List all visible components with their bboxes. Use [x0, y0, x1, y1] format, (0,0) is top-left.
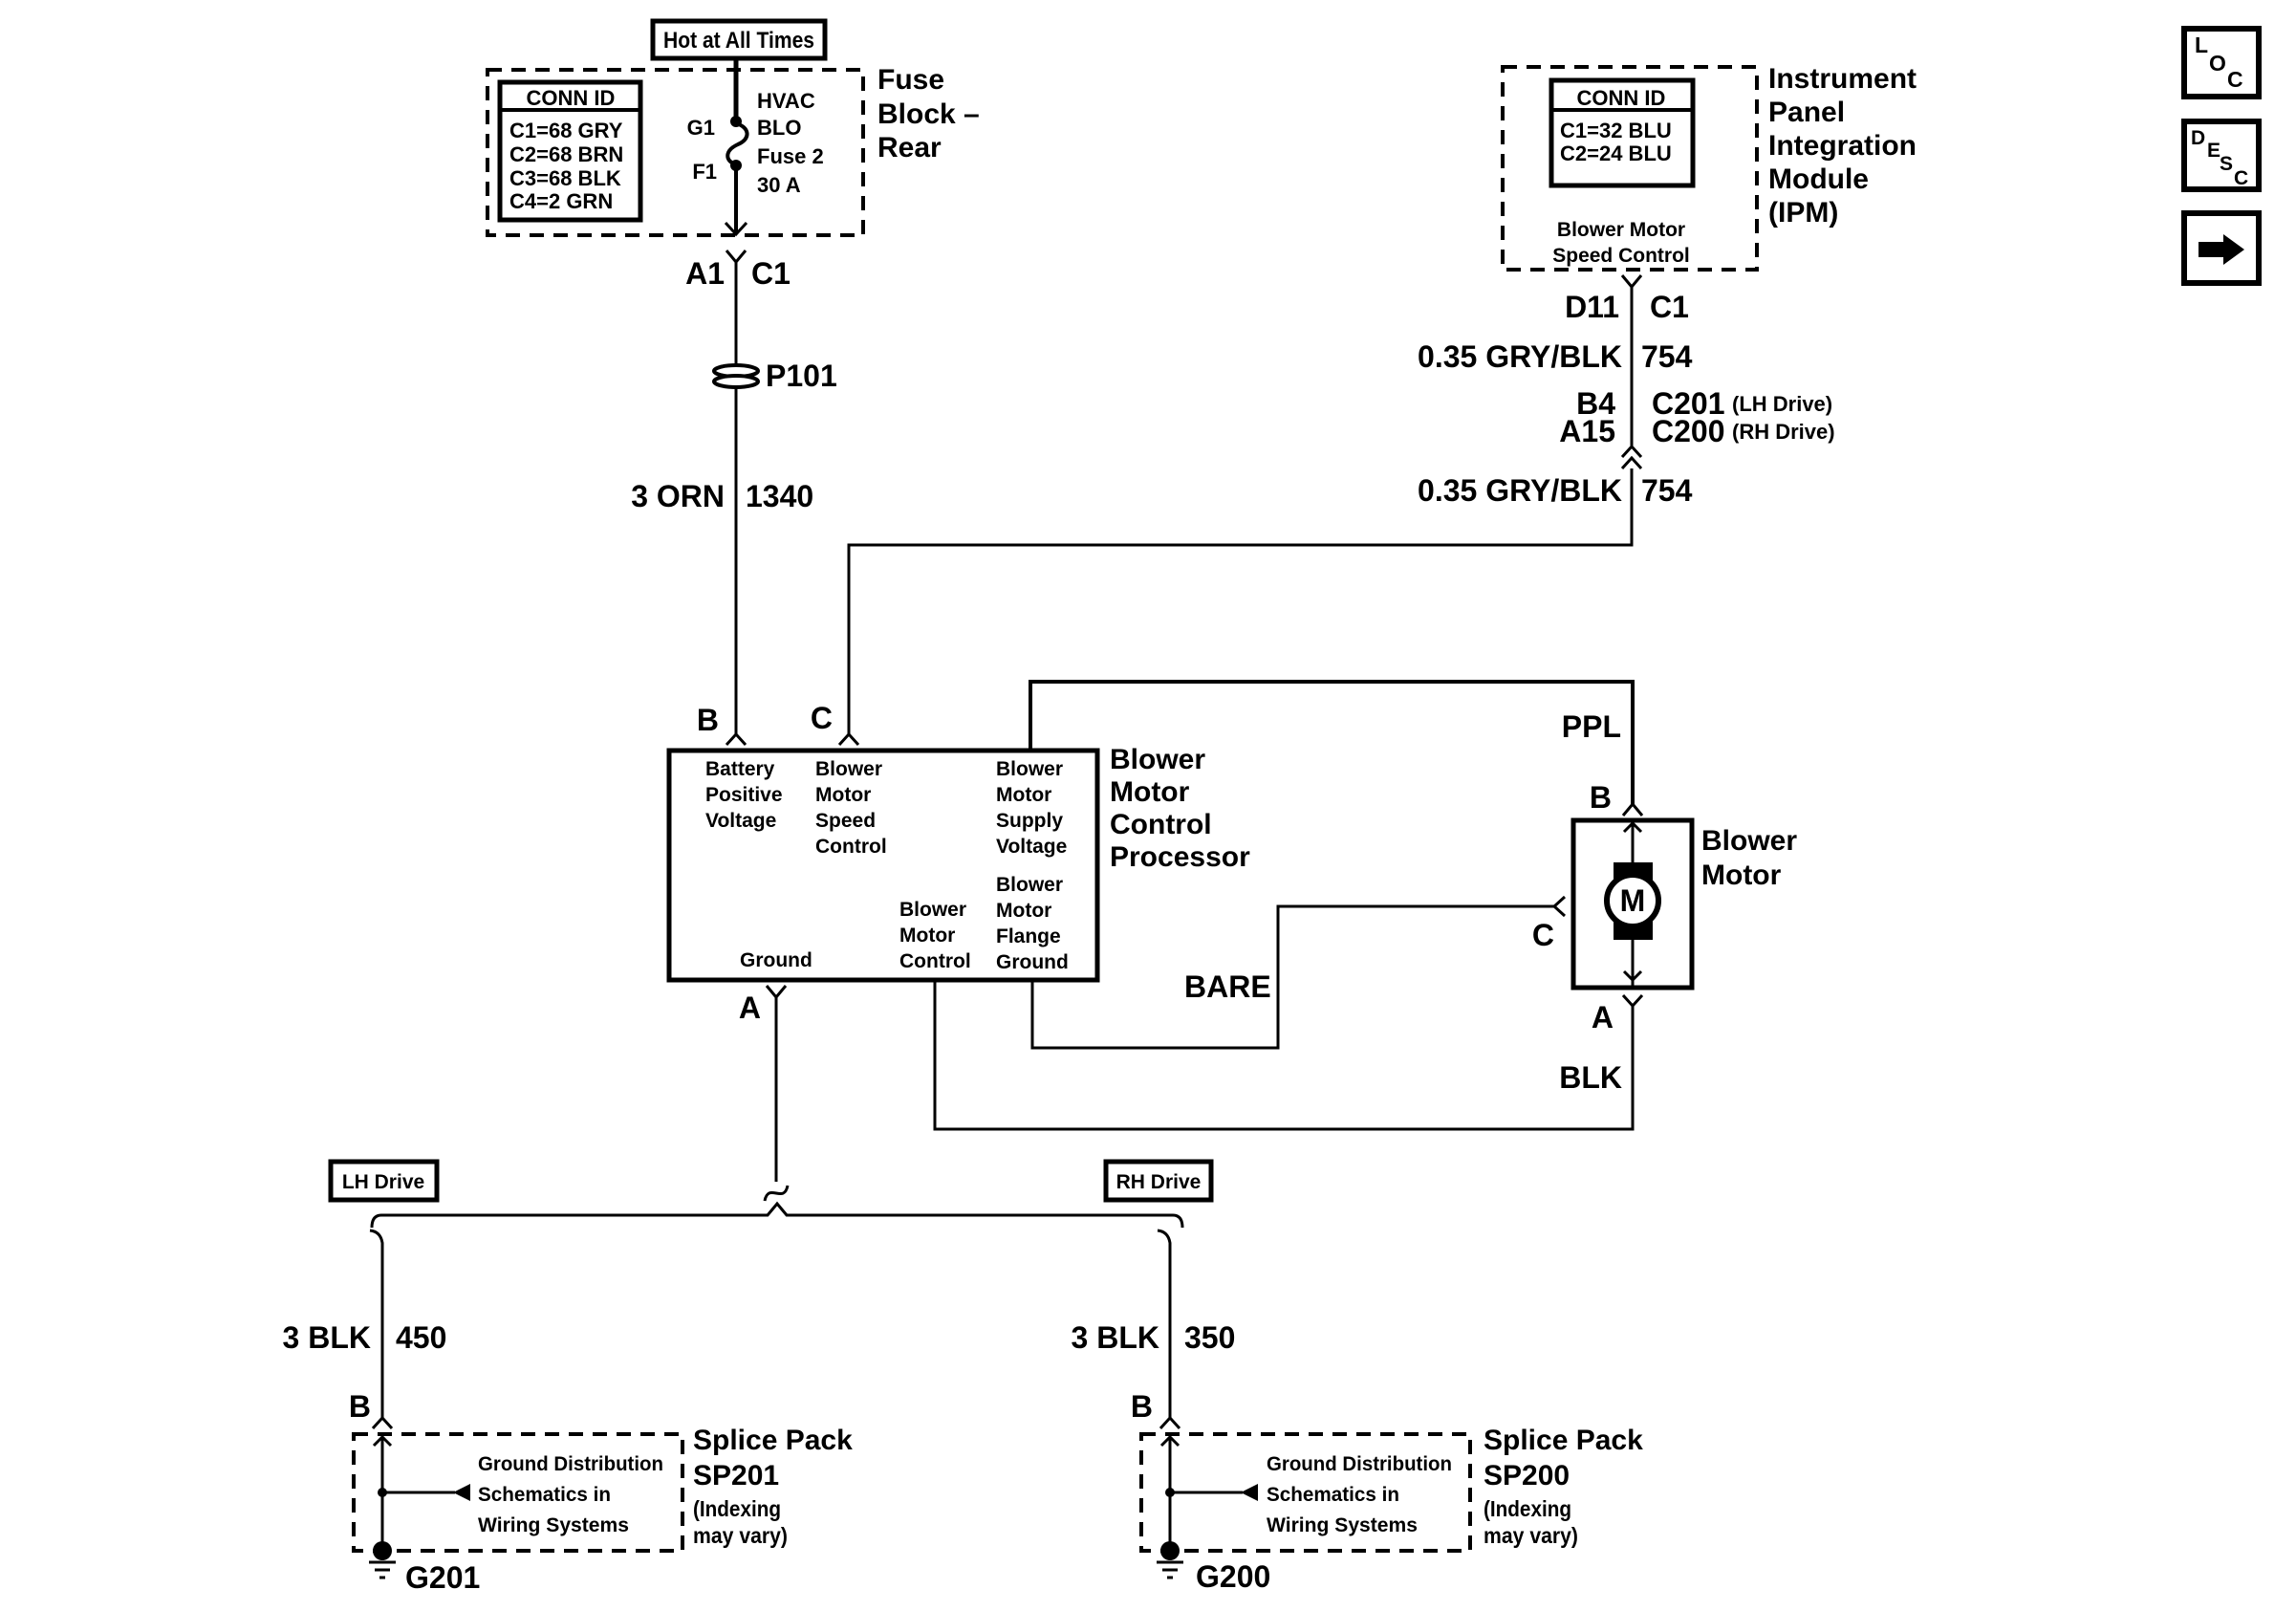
svg-text:(RH Drive): (RH Drive) — [1732, 420, 1835, 444]
svg-text:Blower: Blower — [1110, 744, 1205, 775]
svg-text:E: E — [2207, 140, 2220, 162]
svg-text:450: 450 — [396, 1320, 446, 1355]
svg-text:C1=32 BLU: C1=32 BLU — [1560, 119, 1672, 142]
svg-text:Block –: Block – — [877, 98, 980, 130]
svg-text:Module: Module — [1768, 163, 1869, 195]
svg-text:Fuse: Fuse — [877, 64, 944, 96]
svg-text:Instrument: Instrument — [1768, 63, 1917, 95]
svg-text:B: B — [1131, 1389, 1153, 1424]
svg-text:LH Drive: LH Drive — [342, 1171, 424, 1193]
svg-text:A1: A1 — [685, 256, 725, 291]
svg-text:A: A — [1592, 1000, 1614, 1034]
svg-text:CONN ID: CONN ID — [527, 86, 616, 110]
svg-text:Ground Distribution: Ground Distribution — [478, 1453, 663, 1475]
svg-text:(IPM): (IPM) — [1768, 197, 1838, 229]
svg-text:S: S — [2220, 153, 2233, 175]
svg-text:Blower: Blower — [899, 899, 966, 921]
svg-text:may vary): may vary) — [693, 1523, 788, 1548]
svg-text:1340: 1340 — [746, 479, 813, 513]
svg-text:(Indexing: (Indexing — [1484, 1496, 1571, 1521]
svg-text:Integration: Integration — [1768, 130, 1917, 162]
svg-text:C1: C1 — [1650, 290, 1689, 324]
svg-text:C: C — [811, 701, 833, 735]
svg-text:SP200: SP200 — [1484, 1460, 1570, 1491]
svg-text:Wiring Systems: Wiring Systems — [478, 1514, 629, 1536]
svg-text:350: 350 — [1184, 1320, 1235, 1355]
svg-text:Motor: Motor — [899, 925, 955, 947]
svg-text:C2=24 BLU: C2=24 BLU — [1560, 142, 1672, 165]
svg-text:(LH Drive): (LH Drive) — [1732, 392, 1832, 416]
svg-text:Fuse 2: Fuse 2 — [757, 144, 824, 168]
svg-text:Motor: Motor — [996, 900, 1051, 922]
svg-text:Battery: Battery — [705, 758, 775, 780]
svg-text:Speed: Speed — [815, 810, 876, 832]
svg-text:C1=68 GRY: C1=68 GRY — [509, 119, 623, 142]
svg-text:Ground Distribution: Ground Distribution — [1267, 1453, 1452, 1475]
svg-text:Blower: Blower — [815, 758, 882, 780]
svg-text:Ground: Ground — [740, 949, 812, 971]
svg-text:O: O — [2209, 51, 2226, 76]
svg-text:G200: G200 — [1196, 1559, 1270, 1594]
svg-text:P101: P101 — [766, 359, 837, 393]
svg-text:BLO: BLO — [757, 116, 801, 140]
svg-text:Blower: Blower — [1701, 825, 1797, 857]
svg-text:B: B — [1590, 780, 1612, 815]
svg-text:Voltage: Voltage — [705, 810, 776, 832]
svg-text:L: L — [2195, 33, 2208, 57]
svg-text:G1: G1 — [687, 116, 715, 140]
svg-text:754: 754 — [1641, 473, 1693, 508]
svg-text:3 BLK: 3 BLK — [283, 1320, 371, 1355]
svg-text:Control: Control — [899, 950, 971, 972]
svg-text:D11: D11 — [1565, 290, 1619, 324]
svg-text:Control: Control — [815, 836, 887, 858]
svg-text:Processor: Processor — [1110, 841, 1250, 873]
svg-text:Motor: Motor — [1701, 860, 1782, 891]
svg-text:CONN ID: CONN ID — [1577, 86, 1666, 110]
svg-text:BLK: BLK — [1559, 1060, 1622, 1095]
svg-text:Ground: Ground — [996, 951, 1069, 973]
svg-text:G201: G201 — [405, 1560, 480, 1595]
svg-text:Motor: Motor — [815, 784, 871, 806]
svg-text:(Indexing: (Indexing — [693, 1496, 781, 1521]
svg-text:Speed Control: Speed Control — [1552, 245, 1690, 267]
svg-text:Splice Pack: Splice Pack — [1484, 1425, 1643, 1456]
svg-text:C3=68 BLK: C3=68 BLK — [509, 166, 621, 190]
svg-text:Schematics in: Schematics in — [1267, 1484, 1399, 1506]
svg-text:C4=2 GRN: C4=2 GRN — [509, 189, 613, 213]
svg-text:Splice Pack: Splice Pack — [693, 1425, 853, 1456]
svg-text:Wiring Systems: Wiring Systems — [1267, 1514, 1418, 1536]
svg-text:SP201: SP201 — [693, 1460, 779, 1491]
svg-text:Voltage: Voltage — [996, 836, 1067, 858]
svg-text:C: C — [1532, 918, 1554, 952]
svg-text:Rear: Rear — [877, 132, 942, 163]
svg-text:Flange: Flange — [996, 925, 1061, 947]
svg-text:D: D — [2191, 127, 2205, 149]
svg-text:Control: Control — [1110, 809, 1212, 840]
svg-text:C: C — [2227, 67, 2243, 92]
svg-text:Motor: Motor — [996, 784, 1051, 806]
svg-text:30 A: 30 A — [757, 173, 801, 197]
svg-text:C2=68 BRN: C2=68 BRN — [509, 142, 623, 166]
svg-text:B: B — [697, 703, 719, 737]
svg-text:754: 754 — [1641, 339, 1693, 374]
svg-text:C: C — [2234, 167, 2248, 189]
svg-text:0.35 GRY/BLK: 0.35 GRY/BLK — [1418, 339, 1622, 374]
svg-text:Hot at All Times: Hot at All Times — [663, 28, 814, 54]
svg-text:PPL: PPL — [1562, 709, 1621, 744]
svg-text:C1: C1 — [751, 256, 791, 291]
svg-text:F1: F1 — [692, 160, 717, 184]
svg-text:3 ORN: 3 ORN — [631, 479, 725, 513]
svg-text:HVAC: HVAC — [757, 89, 815, 113]
svg-text:Blower Motor: Blower Motor — [1557, 219, 1685, 241]
svg-text:BARE: BARE — [1184, 969, 1271, 1004]
svg-text:Blower: Blower — [996, 758, 1063, 780]
svg-text:C200: C200 — [1652, 414, 1725, 448]
svg-text:A: A — [739, 991, 761, 1025]
svg-text:3 BLK: 3 BLK — [1072, 1320, 1159, 1355]
svg-text:Supply: Supply — [996, 810, 1063, 832]
svg-text:Blower: Blower — [996, 874, 1063, 896]
svg-text:Panel: Panel — [1768, 97, 1845, 128]
svg-text:Positive: Positive — [705, 784, 783, 806]
svg-text:A15: A15 — [1559, 414, 1615, 448]
svg-text:Motor: Motor — [1110, 776, 1190, 808]
svg-text:M: M — [1620, 883, 1646, 918]
svg-text:RH Drive: RH Drive — [1116, 1171, 1202, 1193]
svg-text:0.35 GRY/BLK: 0.35 GRY/BLK — [1418, 473, 1622, 508]
svg-text:B: B — [349, 1389, 371, 1424]
svg-text:Schematics in: Schematics in — [478, 1484, 611, 1506]
svg-text:may vary): may vary) — [1484, 1523, 1578, 1548]
